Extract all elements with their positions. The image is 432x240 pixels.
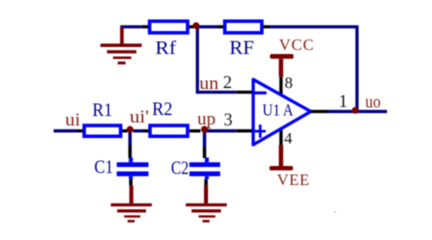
power VEE stem — [279, 145, 283, 166]
pin Rf.1 — [142, 25, 148, 28]
pin Rf.2 — [189, 25, 193, 28]
svg-text:VEE: VEE — [277, 172, 310, 189]
label VEE — [277, 172, 310, 189]
pin RF.1 — [218, 25, 224, 28]
label R2 — [152, 99, 173, 120]
power VEE bar — [270, 166, 294, 170]
op-amp plus marker — [255, 125, 266, 138]
capacitor C1 — [117, 158, 149, 180]
svg-text:4: 4 — [284, 128, 292, 147]
wire top-left from ground corner to Rf — [120, 25, 141, 28]
ground (under C1) — [111, 203, 152, 222]
label ui — [65, 109, 80, 129]
node junction ui' — [127, 126, 134, 133]
op-amp U1 triangle — [253, 79, 311, 144]
pin U1.8 (black) — [279, 77, 282, 95]
ground (top-left) — [100, 44, 141, 65]
svg-text:ui': ui' — [130, 107, 149, 127]
svg-text:C2: C2 — [171, 158, 189, 179]
svg-text:R2: R2 — [152, 99, 173, 120]
resistor Rf — [150, 21, 188, 33]
svg-text:RF: RF — [229, 37, 254, 59]
ground stem (under C1) — [129, 186, 133, 204]
svg-text:8: 8 — [285, 73, 293, 92]
wire junction to RF — [196, 25, 218, 28]
label up — [197, 109, 216, 129]
svg-text:3: 3 — [224, 109, 233, 129]
ground stem (top-left) — [120, 27, 124, 44]
pin R1.2 — [122, 129, 127, 132]
label C1 — [94, 157, 113, 178]
pin C2.2 — [204, 179, 207, 185]
svg-text:1: 1 — [339, 91, 348, 111]
label un — [199, 73, 218, 93]
wire vertical junction to pin2 — [197, 27, 236, 92]
wire output uo — [329, 110, 388, 113]
svg-text:2: 2 — [223, 72, 232, 92]
pin R1.1 — [78, 129, 83, 132]
svg-text:un: un — [199, 73, 218, 93]
label C2 — [171, 158, 189, 179]
svg-text:U1 A: U1 A — [262, 101, 293, 120]
capacitor C2 — [189, 158, 220, 180]
svg-text:Rf: Rf — [155, 38, 176, 59]
label uo — [365, 91, 381, 111]
wire ui' to R2 — [133, 129, 143, 132]
label U1 A — [262, 101, 293, 120]
svg-text:uo: uo — [365, 91, 381, 111]
resistor RF — [225, 21, 262, 33]
node junction up — [201, 126, 208, 133]
pin C1.2 — [129, 179, 132, 185]
power VCC bar — [270, 54, 294, 59]
node junction Rf/RF/un — [193, 22, 200, 29]
label pin number 1 — [339, 91, 348, 111]
stray speck — [334, 211, 336, 213]
label R1 — [92, 100, 112, 121]
label pin number 8 — [285, 73, 293, 92]
power VCC stem — [279, 59, 283, 77]
pin R2.1 — [143, 129, 149, 132]
svg-text:up: up — [197, 109, 216, 129]
pin R2.2 — [189, 129, 200, 132]
pin U1.1 output — [311, 110, 329, 113]
label pin number 3 — [224, 109, 233, 129]
wire ui' down to C1 — [128, 131, 131, 145]
resistor R1 — [84, 126, 120, 137]
node junction output — [352, 107, 359, 114]
pin U1.2 — [236, 91, 252, 94]
pin U1.4 (black) — [279, 129, 282, 146]
wire input ui — [54, 129, 78, 132]
label ui' — [130, 107, 149, 127]
svg-text:ui: ui — [65, 109, 80, 129]
op-amp minus marker — [254, 91, 267, 94]
label pin number 2 — [223, 72, 232, 92]
pin C2.1 — [203, 147, 206, 158]
ground stem (under C2) — [204, 186, 208, 204]
svg-text:R1: R1 — [92, 100, 112, 121]
wire up down to C2 — [203, 131, 206, 147]
resistor R2 — [150, 126, 188, 137]
pin RF.2 — [264, 25, 270, 28]
svg-text:C1: C1 — [94, 157, 113, 178]
wire up to pin3 — [205, 129, 237, 132]
label pin number 4 — [284, 128, 292, 147]
label Rf — [155, 38, 176, 59]
wire RF to output node — [270, 27, 358, 112]
pin U1.3 — [236, 129, 252, 132]
label RF — [229, 37, 254, 59]
ground (under C2) — [186, 203, 227, 222]
pin C1.1 — [128, 145, 131, 158]
svg-text:VCC: VCC — [279, 37, 314, 54]
label VCC — [279, 37, 314, 54]
